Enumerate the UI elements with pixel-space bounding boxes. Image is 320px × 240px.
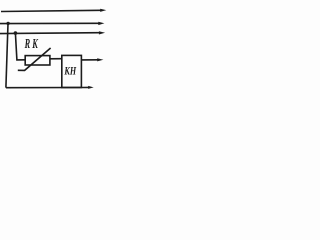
junction dot on line 3 <box>14 31 18 35</box>
wire: relay KH to right output arrow <box>81 59 98 61</box>
wire: bus line 3 <box>0 32 99 35</box>
arrowhead on bus line 2 <box>98 22 104 25</box>
arrowhead on relay KH right output <box>97 58 103 61</box>
wire: thermistor RK to relay KH <box>50 58 62 60</box>
relay KH box <box>62 55 82 87</box>
arrowhead on bus line 1 <box>100 9 106 12</box>
wire: bottom return <box>6 87 82 89</box>
thermistor RK body <box>25 56 50 65</box>
svg-text:КН: КН <box>64 64 77 78</box>
wire: bus line 2 <box>0 22 99 24</box>
svg-text:R K: R K <box>24 36 38 51</box>
wire: stub to bottom right output arrow <box>81 86 89 88</box>
wire: left branch down from line 2 <box>6 23 8 87</box>
thermistor RK diagonal with foot <box>18 48 51 70</box>
arrowhead on bottom right output <box>88 86 94 89</box>
wire: from line 3 down to thermistor RK <box>15 33 25 60</box>
junction dot on line 2 <box>6 22 9 25</box>
arrowhead on bus line 3 <box>99 31 105 34</box>
wire: bus line 1 <box>1 10 101 11</box>
